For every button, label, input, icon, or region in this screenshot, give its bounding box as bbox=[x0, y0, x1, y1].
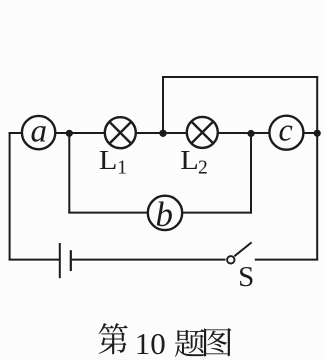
wire: switch to right frame bbox=[255, 259, 318, 261]
wire: battery to switch bbox=[72, 259, 226, 261]
junction node dot (top bypass tap) bbox=[159, 130, 166, 137]
wire: meter c to right frame bbox=[303, 132, 318, 134]
wire: left frame vertical bbox=[9, 132, 11, 261]
lamp L1 (circle with X) bbox=[105, 117, 136, 148]
switch pivot circle bbox=[227, 256, 234, 263]
caption char 图 bbox=[204, 328, 231, 356]
caption char 第 bbox=[99, 323, 128, 354]
wire: top bypass horizontal bbox=[162, 76, 318, 78]
svg-text:c: c bbox=[278, 112, 292, 148]
svg-text:S: S bbox=[238, 261, 254, 293]
wire: lamp L2 to meter c bbox=[218, 132, 270, 134]
wire: meter b branch left vertical bbox=[68, 133, 70, 214]
battery: short plate bbox=[70, 250, 72, 271]
svg-text:L: L bbox=[99, 145, 118, 175]
meter b (circle with italic b) bbox=[148, 195, 182, 234]
wire: bottom left to battery bbox=[9, 259, 59, 261]
junction node dot (meter b branch, left) bbox=[66, 130, 73, 137]
wire: left lead to meter a bbox=[9, 132, 22, 134]
wire: meter b branch right horizontal bbox=[182, 212, 252, 214]
svg-text:b: b bbox=[156, 195, 174, 234]
wire: right frame vertical bbox=[316, 76, 318, 260]
wire: meter b branch right vertical riser bbox=[250, 133, 252, 214]
switch lever arm (open) bbox=[234, 242, 251, 256]
battery: long plate bbox=[59, 243, 61, 278]
wire: lamp L1 to lamp L2 bbox=[136, 132, 187, 134]
lamp L2 (circle with X) bbox=[187, 117, 218, 148]
junction node dot (meter b branch, right) bbox=[247, 130, 254, 137]
wire: meter a to lamp L1 bbox=[55, 132, 105, 134]
svg-text:10: 10 bbox=[135, 326, 166, 360]
caption char 题 bbox=[175, 329, 205, 357]
meter a (circle with italic a) bbox=[22, 113, 55, 149]
wire: meter b branch left horizontal bbox=[68, 212, 148, 214]
svg-text:1: 1 bbox=[117, 157, 127, 178]
wire: riser from mid node up to top bypass bbox=[162, 76, 164, 133]
svg-text:a: a bbox=[30, 113, 47, 149]
meter c (circle with italic c) bbox=[269, 112, 303, 150]
svg-text:L: L bbox=[180, 145, 199, 175]
svg-text:2: 2 bbox=[198, 158, 208, 179]
junction node dot (right frame) bbox=[314, 130, 321, 137]
